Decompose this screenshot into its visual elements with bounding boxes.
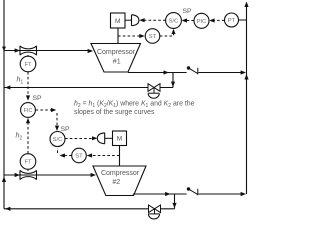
flow arrow down on suction header	[2, 47, 6, 51]
arrow down into recycle 1	[171, 82, 175, 87]
svg-text:S/C: S/C	[169, 19, 179, 25]
pressure controller PIC	[194, 13, 209, 28]
drive horn 2	[97, 133, 112, 144]
flow arrow into venturi FE1	[15, 48, 20, 52]
venturi flow element FE2	[20, 170, 37, 180]
ST2 to SC2 signal	[58, 148, 72, 156]
svg-text:Compressor: Compressor	[97, 49, 136, 56]
svg-text:FT: FT	[24, 160, 32, 166]
surge valve 2	[148, 205, 160, 219]
svg-text:slopes of the surge curves: slopes of the surge curves	[74, 109, 155, 116]
recycle 1 return line	[4, 87, 173, 89]
flow ratio controller FIC	[21, 103, 36, 118]
shaft 2	[119, 146, 121, 167]
svg-text:#2: #2	[112, 179, 120, 186]
speed signal shaft2 to ST2	[92, 155, 120, 157]
flow transmitter FT1	[20, 55, 36, 72]
flow arrow up on suction header below tee 2	[2, 177, 6, 183]
flow arrow up on discharge header below check valve 1 junction	[244, 74, 248, 80]
FIC output to SC2	[36, 110, 57, 127]
motor M2	[113, 131, 127, 146]
svg-text:PT: PT	[228, 18, 236, 24]
SC2 output to drive 2	[65, 138, 93, 140]
suction header pipe (left)	[3, 0, 5, 209]
speed transmitter ST1	[145, 29, 160, 44]
svg-text:h1: h1	[17, 77, 24, 86]
recycle 2 drop from discharge tee	[174, 194, 176, 209]
speed controller SC2	[50, 132, 65, 147]
compressor 1	[91, 44, 141, 73]
flow arrow into compressor 1	[88, 49, 93, 53]
check valve 2	[187, 187, 198, 195]
motor M1	[111, 13, 126, 28]
svg-text:ST: ST	[75, 154, 83, 160]
PIC to SC1 signal	[187, 20, 195, 22]
arrow left into suction header	[5, 207, 10, 211]
svg-text:Compressor: Compressor	[101, 170, 140, 177]
recycle 1 drop from discharge tee	[172, 73, 174, 88]
pressure transmitter PT	[225, 13, 239, 27]
compressor 2 discharge line	[133, 193, 242, 195]
PT to PIC signal	[214, 19, 225, 21]
arrow left into suction header	[5, 85, 10, 89]
h1 signal FT1 to FIC	[27, 72, 29, 97]
svg-text:SP: SP	[61, 126, 71, 133]
outlet arrow up at top of discharge header	[244, 2, 248, 8]
svg-text:FIC: FIC	[24, 108, 33, 114]
svg-text:M: M	[117, 136, 123, 143]
drive horn 1	[125, 15, 139, 26]
h2 signal FT2 to FIC	[27, 122, 29, 154]
flow arrow on discharge 2	[165, 192, 170, 196]
compressor 1 discharge line	[128, 72, 242, 74]
flow arrow into discharge header bottom corner	[241, 192, 246, 196]
discharge header pipe (right)	[246, 3, 248, 195]
compressor 2 suction line	[4, 174, 95, 176]
flow transmitter FT2	[20, 154, 36, 171]
shaft 1	[117, 28, 119, 44]
svg-text:FT: FT	[24, 62, 32, 68]
flow arrow on discharge 1	[164, 70, 169, 74]
flow arrow into discharge header	[241, 70, 246, 74]
svg-text:S/C: S/C	[53, 137, 63, 143]
svg-text:h2 = h1 (K2/K1) where K1 and K: h2 = h1 (K2/K1) where K1 and K2 are the	[74, 101, 195, 110]
svg-text:M: M	[115, 18, 121, 25]
speed transmitter ST2	[72, 148, 87, 163]
svg-text:SP: SP	[33, 95, 43, 102]
compressor 1 suction line	[4, 50, 92, 52]
svg-text:SP: SP	[183, 8, 193, 15]
check valve 1	[187, 66, 198, 74]
PT tap to discharge header	[239, 19, 247, 21]
venturi flow element FE1	[20, 46, 37, 56]
svg-text:ST: ST	[149, 34, 157, 40]
SC1 output to drive	[144, 19, 166, 21]
compressor 2	[93, 166, 146, 196]
speed controller SC1	[166, 13, 182, 29]
arrow down into recycle 2	[172, 203, 176, 208]
speed signal shaft1 to ST1	[118, 35, 140, 37]
svg-text:#1: #1	[113, 58, 121, 65]
svg-text:PIC: PIC	[197, 19, 206, 25]
ST1 to SC1 signal	[160, 33, 174, 37]
flow arrow into venturi FE2	[15, 173, 20, 177]
recycle 2 return line	[4, 208, 175, 210]
surge valve 1	[148, 84, 160, 99]
flow arrow into compressor 2	[91, 173, 96, 177]
svg-text:h2: h2	[16, 133, 23, 142]
